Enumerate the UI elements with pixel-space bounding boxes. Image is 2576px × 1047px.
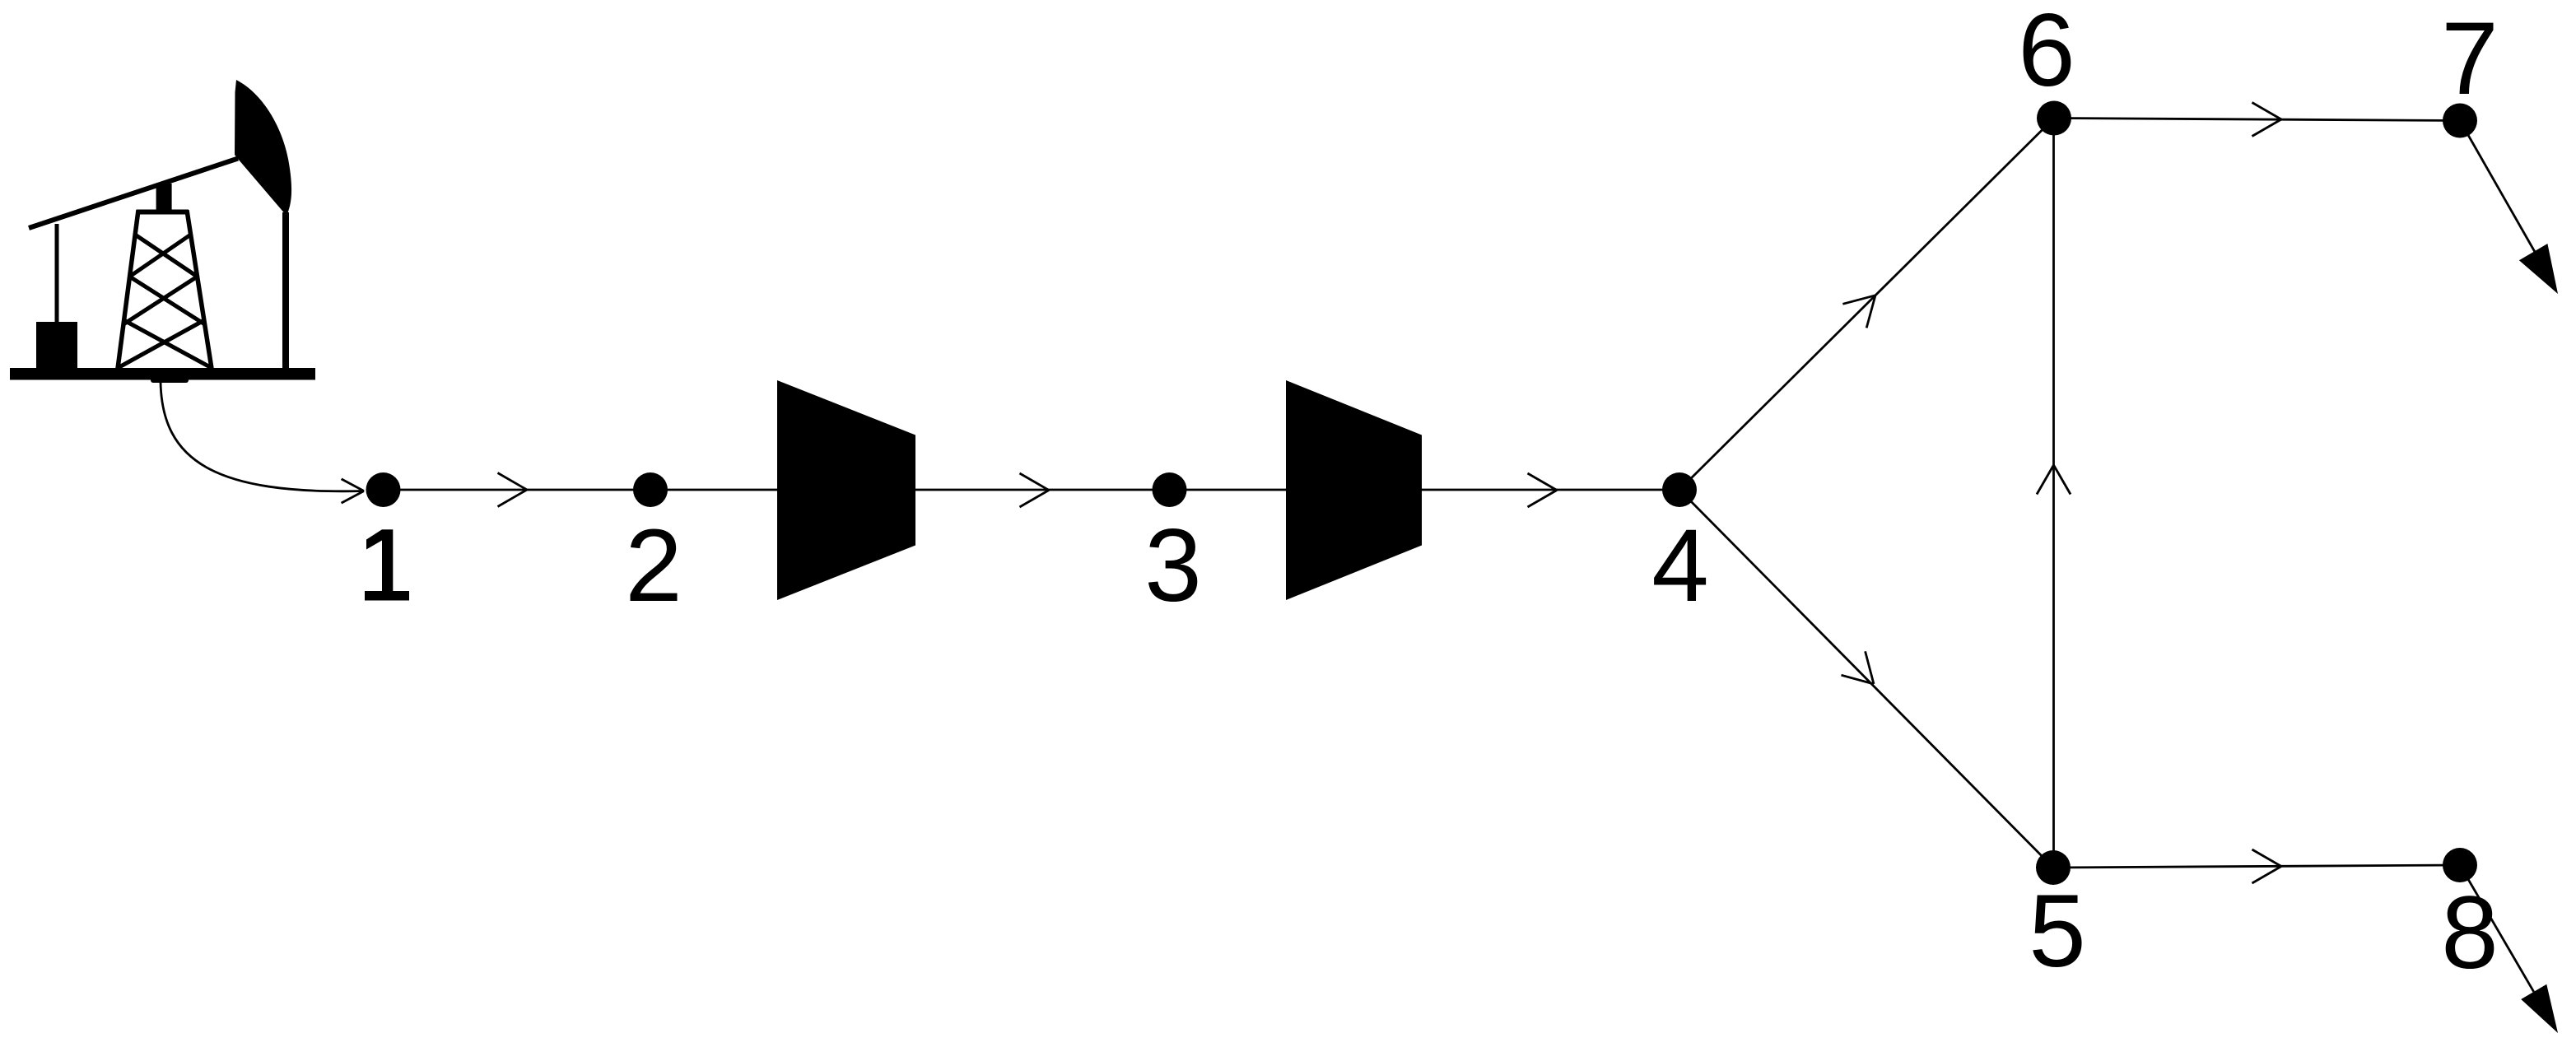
solid arrowhead exit 7 [2519,244,2558,294]
walking beam [29,159,238,229]
counterweight box [36,322,77,368]
svg-text:5: 5 [2029,874,2086,989]
node 6 [2037,101,2071,136]
node 8 [2443,848,2477,882]
svg-text:7: 7 [2441,2,2499,116]
solid arrowhead exit 8 [2521,984,2558,1033]
derrick top chord [137,210,189,215]
pipe 5 to 8 [2053,865,2460,868]
derrick brace X2 [129,277,204,324]
derrick brace X1 [135,235,198,277]
pipe 4 to 5 [1679,490,2053,868]
main pipeline 1-2-3-4 [384,489,1680,491]
pipe 5 to 6 vertical [2052,119,2055,868]
arrowhead on 4-5 [1842,651,1875,684]
node 1 [366,472,401,507]
derrick brace X3 [124,320,212,368]
base bar [10,368,315,380]
node 2 [633,472,668,507]
horse head [235,80,291,216]
arrowhead on 5-6 [2037,465,2071,495]
pipe 6 to 7 [2054,119,2460,121]
arrowhead between C1 and 3 [1020,473,1050,507]
pump jack well icon [10,80,315,380]
svg-text:3: 3 [1144,509,1202,623]
node 7 [2443,104,2477,138]
arrowhead between C2 and 4 [1528,473,1558,507]
wellhead nub [151,378,189,383]
label node 1 (custom glyph with foot serif) [365,529,409,600]
node 5 [2036,850,2071,885]
delivery line from 7 [2460,121,2535,253]
arrowhead on 5-8 [2252,849,2282,883]
pivot block [156,184,172,212]
delivery line from 8 [2460,865,2534,992]
node 3 [1153,472,1187,507]
pipe 4 to 6 [1679,119,2054,491]
compressor C2 [1286,380,1422,600]
arrowhead between 1 and 2 [498,473,528,507]
svg-text:2: 2 [625,509,682,623]
derrick right leg [187,210,212,368]
arrowhead into node 1 [342,479,364,503]
svg-text:8: 8 [2441,876,2499,990]
derrick left leg [118,210,138,368]
flow curve from well to node 1 [161,382,364,491]
arrowhead on 6-7 [2252,103,2282,137]
node 4 [1662,472,1697,507]
arrowhead on 4-6 [1842,295,1875,328]
bridle line [282,212,289,369]
compressor C1 [777,380,915,600]
left vertical rod [55,224,59,323]
svg-text:6: 6 [2018,0,2075,108]
svg-text:4: 4 [1651,509,1709,623]
